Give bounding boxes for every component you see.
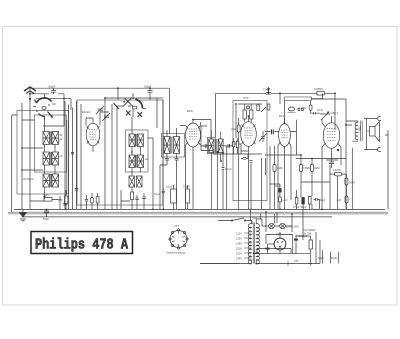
electrolytic C20 (266, 248, 270, 250)
small dot pair (298, 108, 300, 110)
electrolytic C19 (294, 239, 298, 241)
resistor R11 0.1M (333, 168, 342, 176)
tube V3 ECH4 (82, 110, 100, 152)
mains transformer T1 primary (248, 224, 251, 264)
capacitor C29 (85, 200, 88, 202)
capacitor C21 small (162, 191, 166, 193)
capacitor C25 (71, 153, 74, 155)
svg-text:0,5MΩ: 0,5MΩ (303, 166, 311, 170)
resistor R15b (96, 197, 99, 204)
capacitor C1 250pF (51, 88, 56, 94)
wire mid right (265, 146, 346, 209)
wire grid top (36, 99, 71, 110)
tube socket view CBL1 (166, 224, 188, 255)
terminal C bottom (378, 147, 381, 151)
wire rectifier (253, 232, 310, 254)
dial lamp LP2 (280, 223, 299, 229)
bus wire: heater line 3 (8, 213, 388, 215)
capacitor C22 block 0.1µF (171, 189, 177, 203)
wire stage3 top (238, 104, 262, 122)
svg-text:Netz: Netz (252, 216, 258, 220)
svg-text:0,1µF: 0,1µF (166, 185, 173, 189)
svg-text:0,1MΩ: 0,1MΩ (333, 168, 341, 172)
text Ra note (303, 228, 315, 236)
svg-text:Sockelschaltung: Sockelschaltung (166, 251, 185, 255)
antenna arrow tick (29, 98, 31, 102)
wire EF9 plate (180, 120, 211, 210)
resistor R4c (232, 142, 235, 147)
svg-text:50µF: 50µF (320, 198, 326, 202)
capacitor C17b (302, 198, 305, 205)
svg-text:AZ1: AZ1 (276, 232, 282, 236)
capacitor C15 15nF top (264, 93, 273, 95)
wire stage1 verticals (12, 100, 67, 212)
IF transformer T2 box (162, 134, 185, 158)
resistor R10b 0.1M (299, 105, 313, 110)
wire right mid (301, 148, 352, 209)
wire R15 leads (87, 193, 98, 209)
capacitor C18 (329, 160, 334, 168)
svg-text:C44: C44 (243, 96, 249, 100)
junction dot det2 (222, 152, 224, 154)
capacitor C17a (295, 198, 298, 205)
tube V6 EBL1 driver (278, 114, 291, 209)
svg-text:1MΩ: 1MΩ (277, 166, 283, 170)
capacitor C12 0.1uF (222, 168, 225, 170)
svg-text:EF2: EF2 (279, 114, 285, 118)
svg-text:Pa=7000Ω: Pa=7000Ω (303, 228, 315, 232)
rectifier tube AZ1 (274, 232, 286, 254)
wire right drop (385, 130, 388, 209)
svg-text:0.1M: 0.1M (317, 108, 323, 112)
svg-text:50µF: 50µF (318, 256, 324, 260)
tube V1 band-switch disc (33, 94, 56, 120)
mains transformer T1 core (253, 223, 254, 264)
wire IF1 (160, 128, 177, 209)
coil box stage2 (126, 130, 149, 172)
wire psu drops (251, 209, 303, 240)
Philips label box (31, 232, 133, 254)
svg-text:125V: 125V (236, 237, 242, 241)
tube V7 EBL1 output (322, 116, 341, 155)
switch arm S2 (261, 107, 266, 112)
IF transformer T3 box (207, 137, 215, 153)
bus wire: B- line 4 (22, 216, 332, 218)
capacitor C5 50µF (44, 209, 49, 217)
bus wire: heater line 2 (8, 211, 388, 213)
tube V4 EF9 (186, 109, 201, 209)
svg-text:2kΩ: 2kΩ (231, 127, 236, 131)
oscillator coil L5 pair (129, 155, 148, 168)
speaker LS1 cone (367, 122, 380, 142)
wire stage2 coils (132, 117, 153, 209)
capacitor C12a det (205, 144, 207, 147)
resistor R10 top 0.28M (314, 87, 324, 95)
oscillator coil L4 pair (129, 134, 144, 147)
transformer taps (236, 232, 252, 261)
svg-text:0,5µF: 0,5µF (183, 185, 190, 189)
power switch S1 (218, 218, 252, 224)
wire stage2 tops (105, 88, 163, 209)
resistor R6 (250, 110, 253, 119)
resistor R3 (131, 192, 134, 200)
tone pot P2 (317, 108, 330, 120)
resistor R9 (279, 197, 282, 202)
trimmer CT1 (96, 106, 104, 114)
svg-text:50µF: 50µF (43, 217, 49, 221)
stage2 outer shield box (77, 100, 163, 205)
stage3 box C44 (233, 96, 267, 201)
wire mid (223, 104, 236, 209)
svg-text:245V: 245V (236, 257, 242, 261)
svg-text:Philips 478 A: Philips 478 A (35, 238, 128, 254)
svg-text:145V: 145V (236, 242, 242, 246)
mains transformer T1 secondary (256, 224, 259, 264)
speaker LS1 frame (366, 119, 368, 150)
dial scale resistor bar (285, 97, 312, 101)
capacitor C28 coupling dark (272, 130, 274, 135)
stage1 shield box outer (17, 111, 69, 195)
arrow B+ (267, 88, 270, 93)
wire output stage (312, 99, 353, 209)
resistor R1 2MΩ (43, 194, 52, 202)
resistor R15 (91, 198, 94, 204)
capacitor C17c (308, 197, 311, 205)
wire lamps (262, 219, 292, 232)
svg-text:CF7: CF7 (174, 224, 179, 228)
ground chassis (19, 209, 27, 220)
resistor R8b (300, 165, 303, 172)
terminal C top (378, 116, 381, 120)
wire stage2 verticals (81, 98, 163, 209)
tube V5 EBF2 (241, 116, 257, 209)
svg-text:CBL1: CBL1 (331, 111, 339, 115)
resistor R8c (311, 165, 314, 172)
wire block caps (163, 185, 187, 209)
bus wire: chassis line 1 (14, 208, 385, 210)
svg-text:50µF: 50µF (275, 184, 281, 188)
wire det row (201, 126, 262, 209)
choke R14 (309, 240, 312, 249)
svg-text:50µF: 50µF (331, 256, 337, 260)
capacitor C11 (175, 159, 179, 161)
resistor R8a 1M (273, 165, 276, 172)
capacitor C10 (165, 159, 169, 161)
wire B+ top (216, 87, 318, 137)
wire top long (30, 88, 170, 133)
svg-text:0,28MΩ: 0,28MΩ (314, 87, 323, 91)
svg-text:0,1MΩ: 0,1MΩ (299, 106, 307, 110)
coil L7 IF1 primary (164, 137, 170, 154)
wire psu right (293, 232, 320, 264)
capacitor C27 (63, 204, 66, 206)
svg-text:pF: pF (60, 137, 63, 141)
resistor R5b (257, 105, 260, 111)
capacitor C13 (241, 158, 248, 160)
svg-text:6,3V 0,25A: 6,3V 0,25A (286, 225, 299, 229)
svg-text:0,1µF: 0,1µF (154, 192, 161, 196)
antenna A (24, 87, 36, 94)
svg-text:1,5µF 50µF: 1,5µF 50µF (293, 205, 307, 209)
resistor R12 5000 (345, 178, 355, 185)
svg-text:0,1µF: 0,1µF (225, 167, 232, 171)
coil L10 IF2 secondary (216, 139, 223, 153)
stage1 shield box inner (35, 115, 67, 172)
resistor R2 (65, 196, 68, 204)
capacitor C14 4pF trimmer (259, 133, 267, 142)
capacitor C18b 50µF (314, 198, 320, 201)
svg-text:1MΩ: 1MΩ (314, 166, 320, 170)
coil L1 pair (43, 132, 63, 145)
resistor R5 (243, 110, 246, 119)
coil L6 pair oscillator padder (129, 176, 142, 187)
wire stage2 bottom (121, 187, 144, 209)
capacitor C9 (142, 193, 145, 203)
wire antenna lead-in (29, 88, 31, 209)
svg-text:315: 315 (294, 259, 299, 263)
wire bottom right (323, 250, 339, 264)
output transformer T4 (355, 121, 362, 142)
capacitor C4 (58, 196, 61, 204)
capacitor C8 (135, 195, 138, 203)
svg-text:ECH4: ECH4 (82, 110, 90, 114)
bottom scale ticks (200, 261, 311, 267)
wire stage4 (265, 120, 297, 210)
svg-text:220V: 220V (236, 252, 242, 256)
wire speaker terminals (364, 119, 378, 150)
wire interstage verticals (65, 101, 76, 209)
junction dot det (216, 151, 218, 153)
resistor R16 vertical at B+ node (267, 104, 270, 110)
capacitor C24 (312, 112, 318, 115)
capacitor C16 50µF electrolytic (279, 189, 282, 193)
svg-text:ω=3: ω=3 (283, 198, 289, 202)
svg-text:ab=50pF: ab=50pF (23, 177, 34, 181)
resistor R13 4µ5 (337, 196, 349, 203)
wire IF2 (211, 130, 220, 161)
capacitor C26 (75, 189, 78, 191)
dial lamp LP1 (269, 223, 275, 229)
capacitor C23 block (185, 189, 189, 203)
svg-text:110V: 110V (236, 232, 242, 236)
svg-text:für GW: für GW (303, 232, 312, 236)
capacitor C12d (236, 141, 238, 147)
trimmer CT2 (102, 113, 110, 121)
coil L3 pair (43, 174, 59, 187)
capacitor C13b (250, 161, 253, 163)
small cap oval (288, 107, 294, 111)
svg-text:EF9: EF9 (187, 109, 193, 113)
capacitor C12b det (228, 144, 230, 147)
tube V2 band-switch disc 2 (114, 93, 147, 117)
svg-text:200V: 200V (236, 247, 242, 251)
coil L2 pair (43, 152, 63, 165)
wire transformer primary (346, 121, 358, 141)
wire transformer top/bottom (200, 219, 320, 264)
coil L9 IF2 primary (209, 139, 214, 153)
resistor R7 2k (231, 125, 240, 132)
wire stage1 horiz (12, 115, 43, 170)
wire stage1 bottom (30, 190, 66, 209)
wire top right (285, 93, 336, 130)
wire top row stage1 (30, 94, 64, 100)
small circle screen (247, 106, 250, 109)
wire stage3 bottom (239, 118, 266, 209)
capacitor C6 250pF top (148, 88, 153, 95)
wire rectifier bottom box (253, 249, 291, 254)
coil L8 IF1 secondary (171, 137, 180, 154)
